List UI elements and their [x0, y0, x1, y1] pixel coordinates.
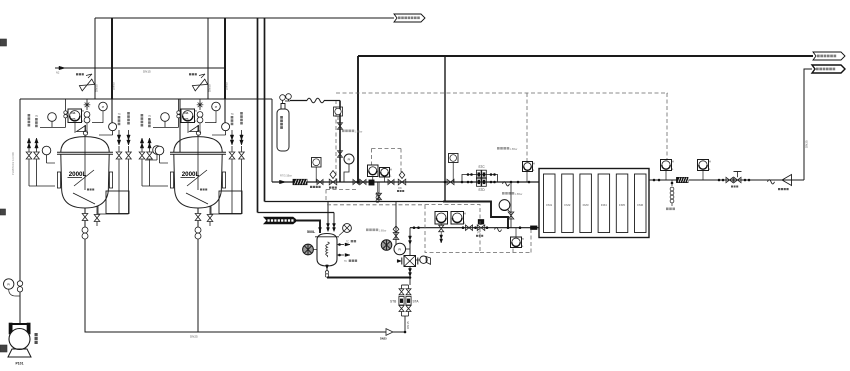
svg-text:DN25: DN25 — [190, 335, 198, 339]
svg-text:PI: PI — [215, 105, 218, 109]
wire solvent feed pair riser A — [257, 18, 259, 213]
small sample valve on frame drop — [178, 99, 180, 127]
label valve tag a — [310, 186, 312, 188]
reactor R102 group — [139, 73, 244, 239]
wire nitrogen header — [272, 181, 539, 183]
signal dashed drop x401 — [400, 149, 402, 176]
svg-text:7C: 7C — [231, 113, 234, 116]
svg-text:DN15: DN15 — [143, 70, 151, 74]
instrument TICA reactor — [181, 109, 195, 123]
sampling branch — [671, 180, 673, 186]
valve XV with actuator on DN50 riser — [79, 79, 94, 91]
hose coil — [307, 98, 324, 103]
svg-text:1.8Bar: 1.8Bar — [379, 228, 387, 232]
wire reactor R102 bottom drop — [197, 239, 199, 332]
svg-text:FM1: FM1 — [546, 203, 552, 207]
wire pump suction drop — [19, 99, 21, 323]
svg-text:7C: 7C — [118, 113, 121, 116]
wire DN80 into manifold — [111, 99, 113, 123]
svg-text:FM5: FM5 — [619, 203, 625, 207]
svg-text:H: H — [82, 110, 84, 113]
jacket nozzle box — [106, 191, 129, 214]
node x445 junction — [444, 181, 447, 184]
svg-text:CIA: CIA — [184, 112, 188, 115]
svg-text:7C: 7C — [344, 261, 347, 263]
svg-text:H: H — [533, 163, 535, 166]
signal dashed ext right — [480, 252, 531, 254]
svg-text:PL08/SN02 4.3-506: PL08/SN02 4.3-506 — [11, 152, 15, 175]
signal dashed main horizontal — [336, 92, 668, 94]
level indicator triangle — [190, 126, 199, 132]
control valve FC lower — [477, 225, 485, 231]
wire manifold R101 right drop — [179, 99, 181, 152]
branch STB — [401, 285, 403, 289]
svg-text:H: H — [195, 110, 197, 113]
svg-text:DN15: DN15 — [406, 321, 410, 329]
wire lower header — [410, 227, 539, 229]
svg-text:DN25: DN25 — [380, 337, 387, 341]
wire x396 drop — [395, 202, 397, 248]
valve small on header — [317, 180, 323, 185]
reactor R101 group — [26, 73, 131, 239]
wire manifold R102 — [133, 98, 272, 100]
vessel 500L coil — [326, 242, 330, 257]
instrument PICA box 1 — [368, 165, 379, 177]
node hx junction — [409, 276, 412, 279]
wire feed line B horizontal — [265, 201, 492, 203]
chilled water out 500L — [337, 254, 344, 256]
svg-text:R7/3.1Bar: R7/3.1Bar — [280, 174, 292, 178]
svg-text:1.8Bar: 1.8Bar — [515, 192, 523, 196]
instrument PRV pilot — [312, 158, 322, 168]
valve double-circle pump line — [17, 281, 22, 286]
wire hx inlet top — [409, 228, 411, 256]
wire jacket right drops — [118, 159, 120, 214]
rupture disc burst symbol — [86, 99, 88, 110]
PCV branch to lower header — [510, 182, 512, 228]
valve FC with diamond — [398, 179, 406, 185]
valve under FICA1 — [439, 225, 444, 232]
wire off-gas drop mid — [444, 56, 446, 202]
svg-text:PI: PI — [102, 105, 105, 109]
valve lower 1 — [466, 225, 473, 230]
svg-text:H: H — [390, 169, 392, 172]
svg-text:PI: PI — [398, 247, 401, 251]
wire hx outlet bottom — [409, 267, 411, 286]
pressure gauge PI top — [99, 102, 108, 111]
svg-text:FM4: FM4 — [601, 203, 607, 207]
chilled water in 500L — [337, 244, 344, 246]
svg-text:STA: STA — [413, 300, 420, 304]
sampling valve circles bottom — [195, 227, 201, 233]
svg-text:FM6: FM6 — [637, 203, 643, 207]
gauge TI right — [109, 123, 117, 131]
svg-text:H: H — [672, 161, 674, 164]
svg-text:DN25: DN25 — [805, 140, 809, 148]
vessel body 2000L — [61, 154, 109, 208]
instrument FICA 1 — [435, 212, 448, 225]
bottom outlet valve — [84, 208, 86, 214]
filter housing — [539, 169, 649, 238]
jacket supply valves right — [116, 152, 122, 159]
wire hose to drop — [324, 100, 340, 102]
nozzle circle top — [196, 131, 200, 135]
wire off-gas header — [358, 55, 813, 57]
motor circle hx — [381, 240, 392, 251]
filter elements FM1-FM6 — [544, 174, 556, 233]
signal dashed drop x667 — [666, 93, 668, 159]
node outlet dots 2 — [718, 179, 721, 182]
safety valve circles — [197, 112, 203, 118]
instrument PIA top filter — [523, 162, 533, 172]
node bottom junction — [404, 331, 407, 334]
wire charge to vessel thick — [297, 221, 320, 234]
svg-text:P101: P101 — [16, 362, 24, 366]
STC bypass branch — [462, 175, 498, 183]
node header junction x358 — [357, 181, 360, 184]
svg-text:H: H — [464, 213, 466, 216]
label set pressure d — [502, 192, 505, 195]
bottom outlet valve — [197, 208, 199, 214]
arrows jacket return left — [27, 138, 30, 143]
node lower header dots — [413, 226, 416, 229]
valve outlet 1 — [726, 177, 733, 182]
valve arrows mid — [353, 180, 359, 185]
vessel body 2000L — [174, 154, 222, 208]
svg-text:FC: FC — [478, 232, 482, 235]
svg-text:2000L: 2000L — [69, 171, 87, 178]
STD components — [467, 181, 470, 184]
wire feed B drop to vessel — [327, 202, 329, 232]
check valve main — [503, 182, 510, 186]
heat exchanger — [404, 256, 416, 267]
gauge jacket left — [42, 146, 51, 155]
safety valve circles — [84, 112, 90, 118]
node dots after check — [517, 181, 520, 184]
instrument PIA lower — [511, 237, 522, 248]
off-page connector vent recovery — [394, 14, 425, 22]
check valve lower — [495, 227, 502, 231]
gauge PI hx — [394, 243, 406, 255]
wire top vent header — [95, 17, 394, 19]
valve x396 with diamond — [393, 233, 399, 240]
wire riser DN80 reactor R102 — [224, 18, 226, 99]
gauge TI right — [222, 123, 230, 131]
wire cylinder to hose — [290, 100, 307, 102]
agitator motor 500L — [343, 224, 352, 233]
wire thick jacket supply path — [443, 202, 508, 228]
svg-text:DN80: DN80 — [112, 82, 116, 90]
instrument TICA reactor — [68, 109, 82, 123]
signal dashed y204 — [327, 204, 425, 206]
level indicator triangle — [77, 126, 86, 132]
wire N2 supply header DN15 — [55, 67, 226, 69]
label set pressure e — [366, 229, 369, 232]
inline mixer hatched — [677, 177, 689, 182]
svg-text:FC: FC — [399, 187, 403, 190]
label set pressure b — [342, 130, 345, 133]
instrument PI x453 — [449, 154, 459, 163]
wire manifold R102 drop to N2 header — [271, 99, 273, 182]
svg-text:DN80: DN80 — [225, 82, 229, 90]
valve PCV — [508, 212, 514, 219]
wire solvent feed pair riser B — [264, 18, 266, 202]
mark left edge 1 — [0, 39, 7, 46]
mark left edge 2 — [0, 209, 6, 215]
label set pressure c — [497, 147, 500, 150]
agitator shaft and blades — [197, 125, 199, 190]
wire N2 drop x340 — [339, 101, 341, 183]
wire off-gas drop from header west — [357, 56, 359, 182]
wire thick chilled header — [327, 277, 410, 279]
gauge PI regulator — [344, 154, 354, 164]
svg-text:DN50: DN50 — [95, 84, 99, 92]
wire jacket left drops — [28, 159, 30, 186]
arrows chilled water supply right — [117, 135, 120, 140]
svg-text:FM2: FM2 — [564, 203, 570, 207]
wire trap merge — [402, 315, 409, 317]
signal dashed drop x527 — [526, 93, 528, 161]
svg-text:7C: 7C — [148, 115, 151, 118]
wire DN80 into manifold — [224, 99, 226, 123]
gauge between reactors — [153, 146, 162, 155]
agitator shaft and blades — [84, 125, 86, 190]
node dot lower right — [519, 226, 522, 229]
arrows jacket return left — [140, 138, 143, 143]
reducer outlet — [782, 175, 792, 186]
jacket nozzle box — [219, 191, 242, 214]
wire riser DN50 reactor R101 — [94, 18, 96, 99]
small sample valve on frame drop — [65, 99, 67, 127]
node outlet dots — [653, 179, 656, 182]
jacket return valves left — [139, 152, 145, 159]
svg-text:2009L: 2009L — [70, 119, 77, 121]
wire filtrate outlet — [649, 179, 804, 181]
pressure gauge PI top — [212, 102, 221, 111]
svg-text:1.8Bar: 1.8Bar — [510, 147, 518, 151]
node outlet dots 3 — [744, 179, 747, 182]
signal dashed drop x336 — [335, 100, 337, 181]
arrow open transfer — [386, 329, 393, 336]
control valve PRV — [329, 179, 337, 185]
svg-text:1.8Bar: 1.8Bar — [355, 129, 363, 133]
valve on N2 drop lower — [338, 151, 343, 158]
svg-text:PI: PI — [7, 283, 10, 287]
svg-text:STC: STC — [478, 165, 485, 169]
signal dashed local box — [371, 149, 373, 166]
gauge air left — [161, 113, 170, 122]
gauge PCV — [499, 200, 510, 211]
drain branch small — [377, 182, 379, 192]
svg-text:H: H — [709, 161, 711, 164]
wire feed A drop to vessel — [333, 213, 335, 232]
nozzle circle top — [83, 131, 87, 135]
wire bottom transfer header — [85, 331, 406, 333]
instrument PICA box 2 — [380, 168, 390, 178]
wire product return line — [804, 69, 812, 180]
pump P101 — [9, 323, 12, 334]
mark left edge 3 — [0, 345, 7, 352]
wire jacket right drops — [231, 159, 233, 214]
wire feed line A horizontal — [258, 212, 335, 214]
signal dashed y189 — [326, 189, 358, 191]
globe valve with stem — [734, 177, 741, 182]
motor circle left 500L — [303, 244, 314, 255]
valve at x450 — [447, 179, 454, 184]
node lower dots 2 — [462, 226, 465, 229]
instrument FICA 2 — [451, 212, 464, 225]
rupture disc burst symbol — [199, 99, 201, 110]
label glass-lined — [200, 189, 202, 191]
svg-text:PI: PI — [348, 158, 351, 162]
wire riser DN80 reactor R101 — [111, 18, 113, 99]
branch STA — [408, 285, 410, 289]
label sampling port — [666, 208, 669, 211]
off-page connector off-gas treatment — [813, 52, 845, 60]
gas cylinder N2 — [277, 109, 289, 151]
wire jacket left drops — [141, 159, 143, 186]
svg-text:7C: 7C — [35, 115, 38, 118]
signal dashed analyzer box — [425, 205, 480, 253]
svg-text:STB: STB — [390, 300, 396, 304]
pump circle hx — [420, 256, 427, 263]
flag charge port — [264, 217, 297, 224]
svg-text:CIA: CIA — [71, 112, 75, 115]
labels circulating water return — [28, 114, 31, 117]
svg-text:H: H — [522, 238, 524, 241]
arrows chilled water supply right — [230, 135, 233, 140]
wire manifold R101 — [20, 98, 180, 100]
svg-text:FM3: FM3 — [583, 203, 589, 207]
svg-text:STD: STD — [478, 188, 485, 192]
inline filter hatched — [293, 179, 307, 184]
svg-text:DN50: DN50 — [208, 84, 212, 92]
wire reactor R101 bottom drop — [84, 239, 86, 332]
valve XV with actuator on DN50 riser — [192, 79, 207, 91]
wire instrument air header — [153, 126, 179, 128]
drain valve 2 — [209, 206, 211, 215]
gauge PI pump — [4, 279, 14, 289]
drain valve 2 — [96, 206, 98, 215]
svg-text:N2: N2 — [56, 71, 60, 75]
jacket return valves left — [26, 152, 32, 159]
valve N2 to vessel branch — [378, 182, 380, 202]
sampling valve circles bottom — [82, 227, 88, 233]
valve on N2 drop upper — [338, 123, 343, 130]
label diaphragm pump — [35, 333, 38, 336]
instrument PIA outlet 2 — [698, 160, 709, 171]
wire branch split — [402, 284, 409, 286]
inline device lower — [531, 226, 538, 230]
instrument PC on drop — [334, 107, 343, 116]
arrow nitrogen header — [280, 180, 286, 184]
svg-text:500L: 500L — [307, 230, 316, 234]
off-page connector product out — [812, 65, 845, 73]
instrument PIA outlet — [661, 160, 672, 171]
cylinder regulator — [280, 95, 286, 101]
jacket supply valves right — [229, 152, 235, 159]
valve arrows pair 2 — [388, 180, 394, 185]
wire 500L bottom outlet — [326, 265, 328, 278]
label glass-lined — [87, 189, 89, 191]
wire instrument air header — [40, 126, 66, 128]
gauge jacket left — [155, 146, 164, 155]
svg-text:2000L: 2000L — [182, 171, 200, 178]
node junction pcv — [507, 226, 510, 229]
svg-text:7C: 7C — [346, 241, 349, 243]
STC components — [467, 173, 470, 176]
gauge air left — [48, 113, 57, 122]
vessel 500L — [317, 234, 337, 267]
node stc split — [461, 181, 464, 184]
labels circulating water return — [141, 114, 144, 117]
arrow N2 inlet — [59, 66, 65, 70]
check valve outlet — [768, 180, 775, 184]
svg-text:2009L: 2009L — [183, 119, 190, 121]
wire riser DN50 reactor R102 — [207, 18, 209, 99]
